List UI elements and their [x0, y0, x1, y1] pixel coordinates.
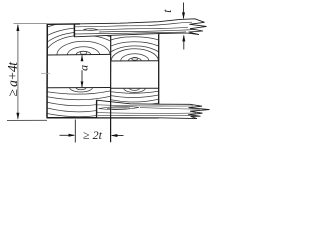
- faint gap tick: [41, 72, 50, 74]
- bottom plank (broken right end): [97, 100, 210, 118]
- height dimension arrow, up: [16, 24, 19, 31]
- divider edge between boards, continuing as extension line: [110, 35, 112, 142]
- grain of left board, lower half: [47, 83, 111, 117]
- top edge of boards: [47, 23, 80, 25]
- gap dimension line a: [81, 56, 83, 88]
- svg-text:≥ a+4t: ≥ a+4t: [5, 61, 20, 97]
- extension line, top: [14, 23, 48, 25]
- gap dimension arrow, down: [81, 82, 84, 88]
- gap edge: top of lower-left board: [47, 87, 110, 89]
- gap edge: top of lower-right board: [111, 87, 159, 89]
- bottom plank grain: [97, 105, 200, 116]
- right edge of right board: [158, 34, 160, 105]
- height dimension arrow, down: [16, 113, 19, 120]
- 2t dimension arrow, right-pointing: [60, 134, 75, 136]
- grain of right board, upper half: [87, 37, 182, 86]
- gap dimension arrow, up: [81, 55, 84, 61]
- grain of right board, lower half: [111, 84, 159, 105]
- svg-text:a: a: [77, 65, 91, 71]
- extension line left of 2t: [74, 120, 76, 143]
- 2t dimension arrow, left-pointing: [112, 135, 124, 137]
- bottom edge of boards: [47, 117, 159, 119]
- gap edge: bottom of upper-right board: [111, 60, 159, 62]
- gap edge: bottom of upper-left board: [47, 53, 110, 56]
- svg-text:≥ 2t: ≥ 2t: [83, 128, 103, 142]
- left edge of boards: [46, 24, 48, 118]
- grain of left board, upper half (annual-ring arcs): [19, 21, 148, 89]
- top plank (broken right end): [74, 19, 206, 37]
- thickness dimension, upper arrow: [183, 3, 185, 19]
- top plank grain: [75, 22, 195, 34]
- height dimension line: [17, 25, 19, 119]
- bottom plank left end face: [96, 100, 98, 117]
- extension line, bottom: [7, 119, 47, 121]
- top plank left end face: [73, 24, 75, 37]
- thickness dimension, lower arrow: [183, 36, 185, 50]
